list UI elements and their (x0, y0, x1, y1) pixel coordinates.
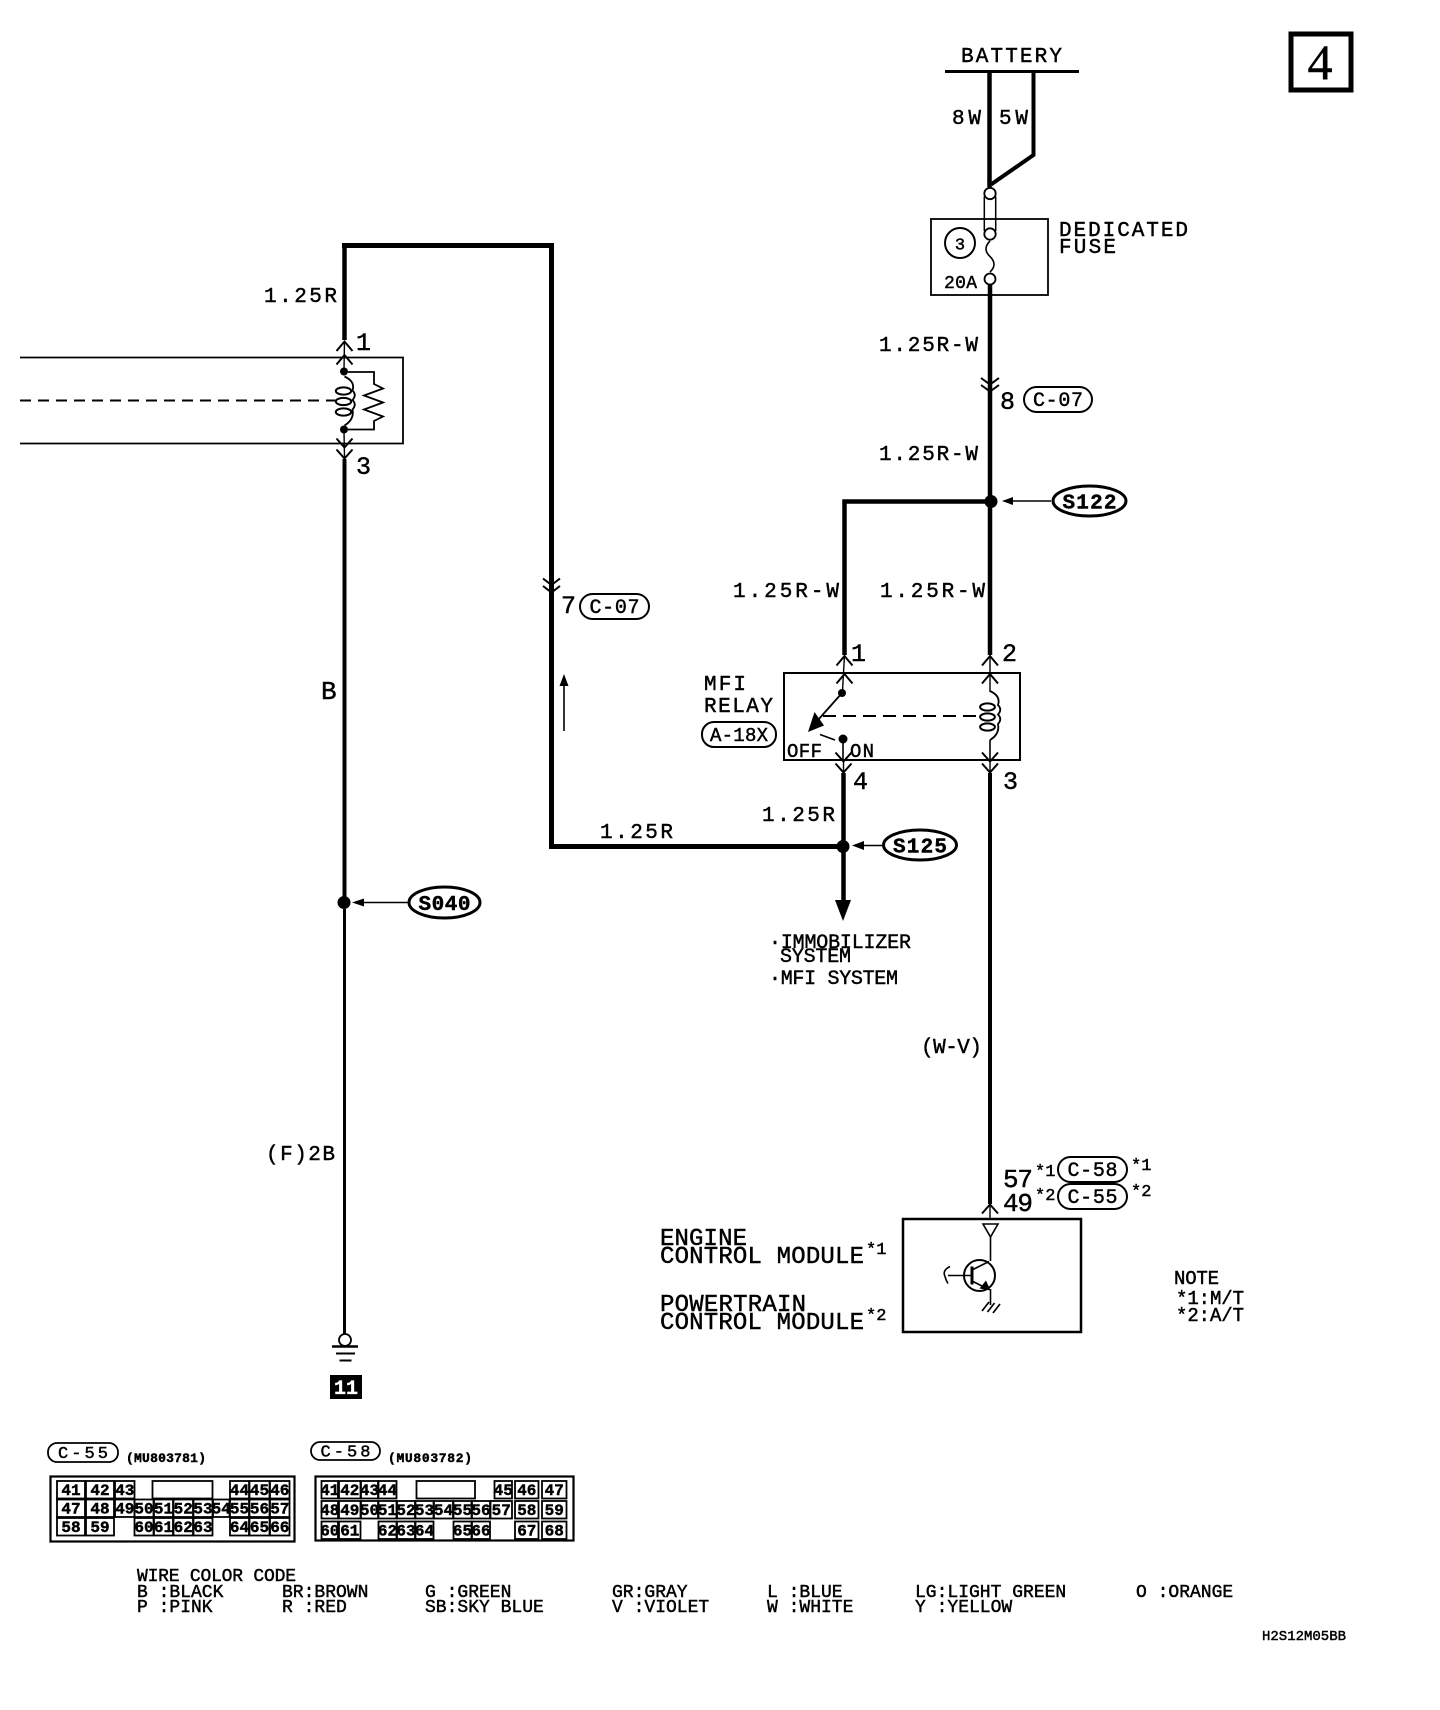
svg-text:7: 7 (561, 592, 576, 621)
svg-text:49: 49 (1003, 1189, 1033, 1219)
svg-text:3: 3 (1003, 768, 1018, 797)
svg-text:64: 64 (415, 1523, 435, 1541)
svg-text:*2: *2 (866, 1307, 886, 1326)
svg-text:1.25R-W: 1.25R-W (879, 335, 978, 358)
svg-text:57: 57 (270, 1501, 289, 1519)
svg-text:20A: 20A (944, 274, 977, 294)
svg-text:56: 56 (471, 1502, 490, 1520)
svg-text:59: 59 (545, 1502, 564, 1520)
svg-text:1.25R: 1.25R (600, 822, 673, 845)
svg-text:46: 46 (517, 1482, 536, 1500)
svg-text:58: 58 (517, 1502, 536, 1520)
svg-text:1.25R: 1.25R (264, 286, 337, 309)
svg-text:65: 65 (453, 1523, 472, 1541)
svg-text:43: 43 (115, 1482, 134, 1500)
svg-text:55: 55 (230, 1501, 249, 1519)
svg-text:42: 42 (90, 1482, 109, 1500)
svg-text:43: 43 (360, 1482, 379, 1500)
svg-text:44: 44 (230, 1482, 250, 1500)
svg-text:H2S12M05BB: H2S12M05BB (1262, 1629, 1346, 1645)
svg-text:57: 57 (492, 1502, 511, 1520)
svg-text:66: 66 (471, 1523, 490, 1541)
svg-text:3: 3 (955, 237, 965, 256)
svg-text:47: 47 (61, 1501, 80, 1519)
svg-text:MFI: MFI (704, 674, 746, 697)
svg-text:45: 45 (494, 1482, 513, 1500)
svg-text:ON: ON (850, 741, 874, 763)
svg-text:51: 51 (154, 1501, 173, 1519)
svg-text:67: 67 (517, 1523, 536, 1541)
svg-text:SYSTEM: SYSTEM (780, 946, 851, 969)
svg-text:52: 52 (396, 1502, 415, 1520)
svg-text:(MU803781): (MU803781) (126, 1451, 206, 1466)
svg-text:53: 53 (415, 1502, 434, 1520)
svg-text:BATTERY: BATTERY (961, 46, 1062, 69)
svg-text:66: 66 (270, 1519, 289, 1537)
svg-text:42: 42 (340, 1482, 359, 1500)
svg-text:8: 8 (1000, 388, 1015, 417)
svg-text:52: 52 (174, 1501, 193, 1519)
svg-text:4: 4 (853, 768, 868, 797)
svg-text:*2: *2 (1131, 1183, 1151, 1202)
svg-text:SB:SKY BLUE: SB:SKY BLUE (425, 1598, 544, 1618)
svg-text:3: 3 (356, 453, 371, 482)
svg-text:48: 48 (320, 1502, 339, 1520)
svg-text:41: 41 (320, 1482, 339, 1500)
svg-text:1.25R-W: 1.25R-W (733, 581, 839, 604)
svg-text:CONTROL MODULE: CONTROL MODULE (660, 1244, 864, 1271)
svg-text:OFF: OFF (787, 741, 822, 763)
svg-text:S122: S122 (1063, 493, 1117, 516)
svg-text:V :VIOLET: V :VIOLET (612, 1598, 709, 1618)
svg-text:49: 49 (340, 1502, 359, 1520)
svg-text:*2: *2 (1035, 1187, 1055, 1206)
svg-text:A-18X: A-18X (710, 725, 769, 747)
svg-text:53: 53 (193, 1501, 212, 1519)
svg-text:54: 54 (434, 1502, 454, 1520)
svg-text:44: 44 (378, 1482, 398, 1500)
svg-text:1.25R-W: 1.25R-W (880, 581, 985, 604)
svg-text:(F)2B: (F)2B (266, 1144, 335, 1167)
svg-text:59: 59 (90, 1519, 109, 1537)
svg-text:2: 2 (1002, 640, 1017, 669)
svg-text:62: 62 (378, 1523, 397, 1541)
svg-text:60: 60 (134, 1519, 153, 1537)
svg-text:55: 55 (453, 1502, 472, 1520)
svg-text:*1: *1 (1035, 1163, 1055, 1182)
svg-text:68: 68 (545, 1523, 564, 1541)
svg-text:41: 41 (61, 1482, 80, 1500)
svg-text:1: 1 (356, 329, 371, 358)
svg-text:(W-V): (W-V) (921, 1037, 982, 1060)
svg-text:(MU803782): (MU803782) (388, 1451, 472, 1466)
svg-text:RELAY: RELAY (704, 696, 773, 719)
svg-text:C-55: C-55 (1068, 1187, 1118, 1210)
svg-text:NOTE: NOTE (1174, 1268, 1219, 1290)
svg-text:51: 51 (378, 1502, 397, 1520)
svg-text:61: 61 (154, 1519, 173, 1537)
svg-text:C-07: C-07 (1033, 390, 1083, 413)
svg-text:B: B (321, 677, 337, 707)
svg-text:62: 62 (174, 1519, 193, 1537)
svg-text:65: 65 (250, 1519, 269, 1537)
svg-text:11: 11 (334, 1378, 358, 1401)
svg-text:45: 45 (250, 1482, 269, 1500)
svg-text:Y :YELLOW: Y :YELLOW (915, 1598, 1012, 1618)
svg-text:*2:A/T: *2:A/T (1176, 1305, 1244, 1327)
svg-text:50: 50 (360, 1502, 379, 1520)
svg-text:*1: *1 (866, 1241, 886, 1260)
svg-text:61: 61 (340, 1523, 359, 1541)
svg-text:47: 47 (545, 1482, 564, 1500)
svg-text:60: 60 (320, 1523, 339, 1541)
svg-text:63: 63 (396, 1523, 415, 1541)
svg-text:C-07: C-07 (590, 597, 640, 620)
svg-text:63: 63 (193, 1519, 212, 1537)
svg-text:P :PINK: P :PINK (137, 1598, 213, 1618)
svg-text:1.25R: 1.25R (762, 805, 835, 828)
svg-text:S125: S125 (893, 837, 947, 860)
svg-text:W :WHITE: W :WHITE (767, 1598, 853, 1618)
svg-text:48: 48 (90, 1501, 109, 1519)
svg-text:56: 56 (250, 1501, 269, 1519)
svg-text:54: 54 (212, 1501, 232, 1519)
svg-text:O :ORANGE: O :ORANGE (1136, 1583, 1233, 1603)
svg-text:4: 4 (1308, 34, 1333, 90)
svg-text:*1: *1 (1131, 1157, 1151, 1176)
svg-text:49: 49 (115, 1501, 134, 1519)
svg-text:1: 1 (851, 640, 866, 669)
svg-text:C-58: C-58 (1068, 1160, 1118, 1183)
svg-text:CONTROL MODULE: CONTROL MODULE (660, 1310, 864, 1337)
svg-text:·MFI SYSTEM: ·MFI SYSTEM (769, 968, 898, 991)
svg-text:50: 50 (134, 1501, 153, 1519)
svg-text:64: 64 (230, 1519, 250, 1537)
svg-text:46: 46 (270, 1482, 289, 1500)
svg-text:1.25R-W: 1.25R-W (879, 444, 978, 467)
svg-text:S040: S040 (419, 894, 471, 917)
svg-text:58: 58 (61, 1519, 80, 1537)
svg-text:R :RED: R :RED (282, 1598, 347, 1618)
